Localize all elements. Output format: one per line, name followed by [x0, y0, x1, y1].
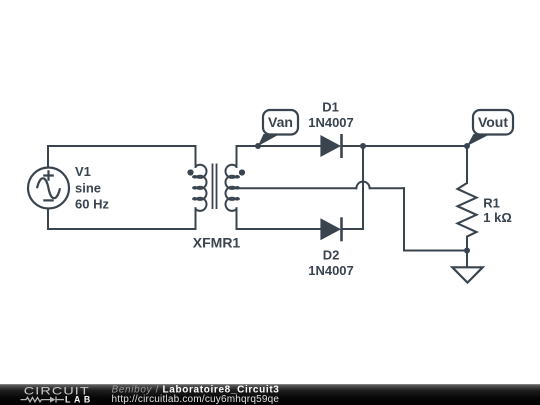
polarity dot secondary [239, 169, 245, 175]
wire center tap to ground node [404, 250, 467, 252]
label D1 1N4007 [308, 100, 354, 131]
svg-text:sine: sine [75, 181, 101, 196]
label V1 sine 60 Hz [75, 164, 109, 212]
wire node to ground [466, 251, 468, 267]
polarity dot primary [187, 169, 193, 175]
svg-text:R1: R1 [483, 196, 500, 211]
svg-text:Van: Van [268, 114, 293, 130]
node Vout flag [467, 110, 513, 146]
svg-text:D1: D1 [322, 100, 339, 115]
node Van junction dot [255, 143, 261, 149]
transformer XFMR1 secondary winding [225, 165, 238, 211]
wire primary bottom lead [195, 208, 197, 229]
svg-text:LAB: LAB [65, 395, 94, 405]
svg-text:60 Hz: 60 Hz [75, 197, 109, 212]
wire bottom rail primary [48, 228, 196, 230]
node Vout junction dot [464, 143, 470, 149]
voltage source V1 [28, 168, 69, 209]
node Van flag [258, 110, 298, 146]
wire Vout to R1 top [466, 146, 468, 183]
svg-text:XFMR1: XFMR1 [193, 235, 241, 251]
wire top rail primary [48, 145, 196, 147]
wire secondary bottom to D2 anode [237, 228, 321, 230]
diode D1 [320, 134, 341, 158]
CircuitLab logo resistor-diode symbol [21, 397, 65, 403]
wire center tap right segment [370, 187, 404, 189]
svg-text:http://circuitlab.com/cuy6mhqr: http://circuitlab.com/cuy6mhqrq59qe [112, 394, 280, 405]
svg-text:V1: V1 [75, 164, 91, 179]
label D2 1N4007 [308, 248, 354, 279]
svg-text:1N4007: 1N4007 [308, 115, 354, 130]
wire R1 bottom to node [466, 237, 468, 251]
wire top rail secondary to D1 anode [237, 145, 321, 147]
wire D1 cathode to Vout node [342, 145, 468, 147]
transformer core lines [213, 164, 217, 210]
label R1 1 kOhm [483, 196, 512, 226]
wire secondary bottom lead [236, 208, 238, 229]
wire D2 cathode to corner [343, 228, 364, 230]
svg-text:Vout: Vout [478, 114, 508, 130]
svg-text:1N4007: 1N4007 [308, 263, 354, 278]
resistor R1 [458, 183, 477, 237]
wire V1 top lead [47, 146, 49, 168]
svg-text:D2: D2 [323, 248, 340, 263]
wire center tap left segment [237, 187, 357, 189]
diode D2 [320, 217, 341, 241]
footer bar [0, 384, 540, 405]
junction ground node [464, 248, 470, 254]
transformer XFMR1 primary winding [193, 165, 206, 211]
wire secondary top lead [236, 146, 238, 167]
wire hop over vertical [356, 182, 369, 189]
junction D1 cathode node [360, 143, 366, 149]
wire center tap down segment [403, 188, 405, 250]
ground [452, 267, 482, 282]
wire common cathode vertical [362, 146, 364, 229]
svg-text:1 kΩ: 1 kΩ [483, 210, 512, 225]
wire V1 bottom lead [47, 209, 49, 230]
wire primary top lead [195, 146, 197, 167]
